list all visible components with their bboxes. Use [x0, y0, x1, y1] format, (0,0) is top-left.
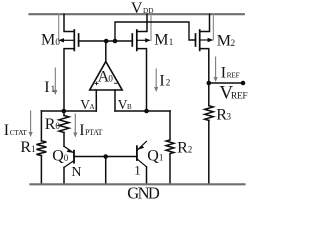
label 1 (emitter ratio): [134, 163, 141, 178]
junction base bus to ground: [103, 154, 108, 159]
label M1: [154, 32, 173, 49]
svg-text:I: I: [159, 72, 164, 89]
wire node A: [41, 110, 96, 112]
label ICTAT: [4, 122, 28, 139]
label Q1: [147, 148, 163, 165]
svg-text:Q: Q: [52, 148, 64, 165]
label N (emitter ratio): [71, 165, 81, 180]
label M0: [41, 32, 60, 49]
svg-text:I: I: [79, 122, 84, 139]
transistor Q0: [64, 146, 74, 184]
transistor M0: [58, 14, 78, 111]
svg-text:0: 0: [108, 74, 113, 84]
label Q0: [52, 148, 68, 165]
resistor R1: [36, 111, 46, 184]
svg-text:R: R: [20, 139, 31, 156]
svg-text:0: 0: [55, 121, 60, 131]
svg-text:1: 1: [31, 144, 36, 154]
svg-text:M: M: [217, 32, 231, 49]
current arrow IREF: [214, 57, 218, 82]
svg-text:V: V: [131, 0, 143, 17]
svg-text:2: 2: [231, 38, 236, 48]
label VREF: [219, 83, 247, 104]
current arrow IPTAT: [73, 114, 77, 138]
junction node A: [62, 109, 67, 114]
op-amp A0: [90, 62, 123, 91]
label IREF: [221, 65, 240, 82]
resistor R0: [59, 111, 69, 146]
label R3: [216, 107, 231, 124]
label R0: [45, 116, 61, 133]
svg-text:1: 1: [169, 37, 174, 47]
ground rail: [31, 183, 245, 185]
junction VREF left: [207, 81, 212, 86]
svg-text:A: A: [90, 103, 95, 111]
current arrow ICTAT: [29, 111, 33, 137]
svg-text:0: 0: [55, 37, 60, 47]
junction M2 gate branch: [113, 39, 118, 44]
svg-text:REF: REF: [227, 71, 240, 80]
svg-text:2: 2: [166, 77, 171, 87]
label I2: [159, 72, 170, 89]
svg-text:1: 1: [134, 163, 141, 178]
junction op-amp output on gate bus: [104, 39, 109, 44]
wire base bus to ground: [105, 157, 107, 185]
transistor M2: [196, 14, 214, 83]
node VREF wire: [209, 82, 243, 84]
svg-text:Q: Q: [147, 148, 159, 165]
wire node B: [115, 110, 170, 112]
svg-text:GND: GND: [127, 184, 160, 200]
label GND: [127, 184, 160, 203]
svg-text:1: 1: [51, 84, 56, 94]
label R2: [177, 140, 192, 157]
label IPTAT: [79, 122, 102, 139]
current arrow I2: [154, 69, 158, 92]
label VB: [118, 97, 132, 112]
label I1: [44, 79, 55, 96]
svg-text:I: I: [44, 79, 49, 96]
junction node B: [144, 109, 149, 114]
svg-text:B: B: [127, 103, 132, 111]
svg-text:M: M: [41, 32, 55, 49]
resistor R3: [205, 83, 214, 184]
label R1: [20, 139, 35, 156]
svg-text:DD: DD: [143, 6, 154, 15]
svg-text:N: N: [71, 165, 81, 180]
svg-text:REF: REF: [231, 91, 248, 101]
svg-text:R: R: [45, 116, 56, 133]
resistor R2: [166, 111, 174, 184]
wire gate bus M0-M1: [79, 40, 133, 42]
svg-text:CTAT: CTAT: [10, 128, 28, 137]
transistor M1: [132, 14, 151, 111]
svg-text:3: 3: [227, 112, 232, 122]
label VDD: [131, 0, 154, 17]
wire base bus Q0-Q1: [74, 156, 137, 158]
svg-text:I: I: [221, 65, 226, 82]
power rail VDD: [30, 13, 244, 15]
current arrow I1: [53, 68, 57, 95]
svg-text:2: 2: [188, 145, 193, 155]
wire M2 gate branch: [115, 22, 196, 41]
svg-text:1: 1: [159, 153, 164, 163]
label VA: [80, 97, 94, 112]
terminal VREF right: [241, 81, 246, 86]
svg-text:PTAT: PTAT: [85, 128, 103, 137]
svg-text:R: R: [177, 140, 188, 157]
svg-text:M: M: [154, 32, 168, 49]
svg-text:I: I: [4, 122, 9, 139]
label M2: [217, 32, 235, 49]
transistor Q1: [137, 141, 147, 184]
wire op-amp output: [105, 41, 107, 62]
label A0: [98, 69, 114, 86]
svg-text:0: 0: [64, 153, 69, 163]
wire op-amp input leads: [95, 90, 97, 111]
